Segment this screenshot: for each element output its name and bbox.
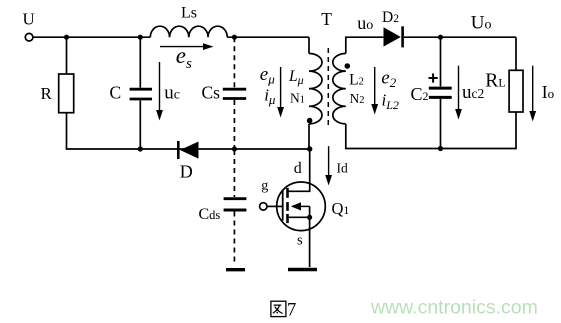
- mosfet Q1 channel bar middle: [286, 202, 289, 211]
- svg-text:Id: Id: [337, 160, 348, 175]
- capacitor C2: [429, 87, 452, 90]
- mosfet Q1 body circle: [277, 182, 326, 231]
- wire dashed below Cds: [233, 212, 235, 264]
- mosfet Q1 channel bar top: [286, 188, 289, 198]
- svg-text:D: D: [180, 161, 193, 181]
- arrow Io: [532, 66, 534, 112]
- mosfet Q1 source bar and lead: [288, 206, 310, 217]
- svg-text:uc2: uc2: [462, 82, 484, 103]
- svg-text:eμ: eμ: [260, 64, 275, 86]
- wire dashed Cs branch bottom: [233, 100, 235, 148]
- svg-text:iL2: iL2: [382, 91, 399, 113]
- wire C2 branch top: [440, 37, 442, 86]
- wire RL branch: [515, 37, 517, 70]
- transformer T secondary lead bottom: [346, 124, 441, 149]
- transformer T secondary winding N2: [333, 54, 346, 124]
- svg-text:7: 7: [287, 300, 296, 320]
- arrow uc2: [458, 66, 460, 110]
- svg-text:www.cntronics.com: www.cntronics.com: [370, 297, 538, 319]
- input terminal U: [25, 33, 33, 41]
- svg-text:L2: L2: [349, 71, 364, 88]
- svg-text:Lμ: Lμ: [288, 68, 304, 87]
- terminal bar below source: [288, 268, 317, 271]
- svg-text:s: s: [297, 233, 303, 249]
- svg-text:e2: e2: [381, 67, 396, 90]
- resistor RL: [509, 70, 523, 112]
- wire C branch bottom: [139, 101, 141, 150]
- svg-text:uc: uc: [164, 82, 180, 103]
- svg-text:C2: C2: [411, 84, 429, 104]
- wire top between Ls and primary: [227, 36, 309, 38]
- wire C branch top: [139, 37, 141, 87]
- transformer core dashed line: [327, 48, 329, 127]
- wire R branch bottom: [67, 113, 310, 149]
- svg-text:Cds: Cds: [199, 206, 221, 223]
- transformer polarity dot primary: [307, 118, 313, 124]
- mosfet Q1 substrate arrow: [297, 205, 310, 207]
- svg-text:g: g: [261, 179, 268, 194]
- node junction C branch: [138, 35, 143, 40]
- node junction R branch: [64, 35, 69, 40]
- svg-text:T: T: [321, 9, 332, 29]
- diode D: [177, 141, 180, 159]
- resistor R: [59, 74, 74, 113]
- capacitor C: [130, 88, 152, 91]
- node junction Cs top: [232, 35, 237, 40]
- svg-text:N2: N2: [350, 91, 365, 106]
- wire dashed to Cds: [233, 150, 235, 197]
- wire dashed Cs branch top: [233, 37, 235, 87]
- transformer T primary lead top: [308, 37, 310, 53]
- gate terminal circle: [260, 203, 267, 210]
- svg-text:C: C: [110, 82, 122, 102]
- svg-text:D2: D2: [382, 9, 399, 26]
- svg-text:iμ: iμ: [264, 86, 276, 107]
- gate lead wire: [267, 205, 283, 207]
- mosfet Q1 channel bar bottom: [286, 214, 289, 223]
- arrow e2 iL2: [374, 67, 376, 105]
- caption figure 7 (drawn CJK tu): [271, 301, 286, 316]
- wire source down: [309, 217, 311, 267]
- svg-text:U: U: [23, 10, 35, 29]
- node junction C2 top: [438, 35, 443, 40]
- arrow uc: [159, 62, 161, 111]
- svg-text:R: R: [41, 84, 53, 103]
- svg-text:Q1: Q1: [332, 199, 350, 218]
- svg-text:RL: RL: [485, 71, 505, 92]
- transformer T primary winding N1: [309, 54, 322, 124]
- arrow e_mu i_mu: [280, 67, 282, 108]
- svg-text:Ls: Ls: [181, 4, 197, 21]
- capacitor Cs: [223, 88, 246, 91]
- node junction primary bottom: [307, 146, 312, 151]
- mosfet Q1 gate bar: [282, 190, 284, 221]
- diode D2: [384, 27, 401, 46]
- svg-text:Cs: Cs: [202, 82, 221, 102]
- transformer polarity dot secondary: [345, 63, 351, 69]
- svg-text:d: d: [294, 160, 302, 177]
- svg-text:Uo: Uo: [471, 13, 492, 34]
- wire C2 branch bottom: [440, 99, 442, 149]
- arrow e_s: [160, 46, 204, 48]
- arrow Id: [328, 146, 330, 176]
- node junction C bottom: [138, 146, 143, 151]
- plus sign C2: [429, 77, 438, 79]
- transformer T secondary lead top: [346, 37, 384, 53]
- node junction source: [307, 215, 312, 220]
- capacitor Cds: [224, 197, 247, 200]
- mosfet Q1 drain lead: [288, 149, 310, 191]
- svg-text:uo: uo: [357, 13, 373, 33]
- transformer T primary lead bottom: [308, 124, 310, 149]
- terminal bar below Cds: [226, 268, 245, 271]
- wire R branch top: [66, 37, 68, 74]
- svg-text:Io: Io: [542, 82, 554, 102]
- svg-text:N1: N1: [290, 90, 305, 105]
- wire D2 to output: [404, 36, 516, 38]
- wire top-left from terminal to Ls: [33, 36, 150, 38]
- node junction C2 bottom: [438, 146, 443, 151]
- inductor Ls: [150, 26, 227, 37]
- node junction Cs bottom wire crossing: [232, 146, 237, 151]
